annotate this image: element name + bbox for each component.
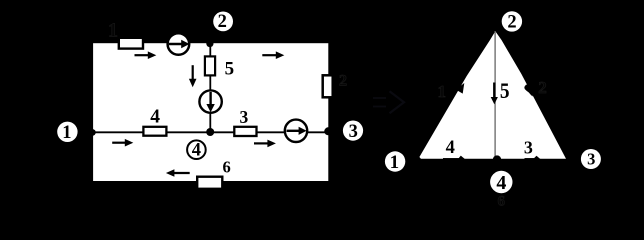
svg-text:6: 6 xyxy=(497,194,505,210)
current source I5 xyxy=(199,90,221,112)
resistor R2 xyxy=(323,75,333,97)
svg-text:3: 3 xyxy=(349,122,358,142)
resistor R5 xyxy=(205,56,215,75)
svg-text:5: 5 xyxy=(500,80,510,103)
current source I3 xyxy=(285,120,307,142)
wire arrow top-right xyxy=(262,51,284,59)
wire arrow down (branch) xyxy=(189,65,197,87)
graph node 4 label xyxy=(490,171,512,194)
edge 2-3 arrowhead xyxy=(524,84,533,96)
svg-text:5: 5 xyxy=(225,58,235,79)
left wire dot (node 1 net) xyxy=(89,129,96,136)
current source I1 xyxy=(168,33,190,55)
svg-text:2: 2 xyxy=(538,78,547,97)
resistor R3 xyxy=(234,127,256,136)
svg-text:4: 4 xyxy=(496,172,506,194)
svg-text:1: 1 xyxy=(390,152,400,173)
wire middle horizontal xyxy=(92,131,329,133)
edge 4-3 arrow xyxy=(525,156,542,160)
graph node 3 label xyxy=(581,149,601,169)
svg-text:2: 2 xyxy=(218,12,227,32)
graph edge 5 (gray line) xyxy=(494,31,496,159)
wire arrow mid-left xyxy=(112,139,133,147)
edge 1-4 arrow xyxy=(443,156,466,160)
svg-text:2: 2 xyxy=(339,73,347,90)
resistor R4 xyxy=(143,127,166,136)
node 2 junction dot xyxy=(206,40,213,47)
graph node 4 dot xyxy=(493,155,501,163)
graph node 1 label xyxy=(385,151,405,173)
ghost implies arrow xyxy=(373,91,404,113)
svg-text:1: 1 xyxy=(108,19,118,41)
svg-text:2: 2 xyxy=(507,13,516,33)
resistor R1 xyxy=(119,38,143,49)
svg-text:4: 4 xyxy=(446,138,455,158)
node 3 label xyxy=(343,121,363,143)
right wire dot (node 3 net) xyxy=(324,127,332,135)
wire vertical branch xyxy=(209,43,211,132)
svg-text:4: 4 xyxy=(150,107,160,128)
circuit outline box xyxy=(92,42,330,182)
svg-text:1: 1 xyxy=(438,82,447,101)
svg-text:4: 4 xyxy=(192,141,201,161)
edge 5 arrow xyxy=(491,83,498,105)
wire arrow bottom (left) xyxy=(166,169,190,177)
node 1 label xyxy=(57,122,77,144)
graph node 2 label xyxy=(502,11,522,32)
node 4 label xyxy=(187,140,206,160)
svg-text:3: 3 xyxy=(587,150,595,169)
junction dot (node 4 net) xyxy=(206,128,214,136)
wire arrow top-left xyxy=(135,51,157,59)
svg-text:3: 3 xyxy=(524,137,533,157)
wire arrow mid-right xyxy=(254,140,276,148)
svg-text:1: 1 xyxy=(62,123,71,143)
svg-text:6: 6 xyxy=(222,158,230,177)
node 2 label xyxy=(213,12,233,33)
svg-text:3: 3 xyxy=(240,107,249,127)
resistor R6 xyxy=(197,177,222,189)
graph triangle xyxy=(419,31,566,158)
edge 1-2 arrowhead xyxy=(456,83,464,94)
